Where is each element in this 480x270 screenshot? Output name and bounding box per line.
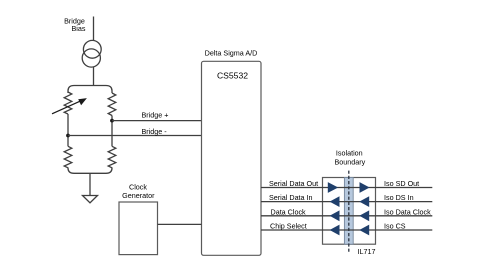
clock generator U2 box [119, 202, 158, 255]
label Isolation Boundary [335, 148, 366, 166]
buffer A7 (Chip Select, left) [330, 225, 340, 236]
wire right branch mid [111, 116, 113, 147]
wire Serial Data Out row [261, 187, 432, 189]
resistor R3 (bottom left) [64, 146, 72, 168]
resistor R1 (strain gauge, top left) [64, 92, 72, 114]
svg-text:Iso CS: Iso CS [384, 222, 406, 231]
svg-text:Boundary: Boundary [335, 157, 366, 166]
svg-text:Bridge -: Bridge - [142, 127, 168, 136]
buffer A3 (DS In, left) [330, 196, 340, 207]
wire Bridge - [68, 135, 202, 137]
svg-text:Serial Data In: Serial Data In [269, 193, 313, 202]
wire left branch mid [67, 114, 69, 146]
resistor R2 (top right) [108, 93, 116, 116]
wire Bridge + [112, 120, 202, 122]
svg-text:Bias: Bias [72, 24, 86, 33]
node Bridge Bias label [64, 16, 86, 33]
svg-text:Delta Sigma A/D: Delta Sigma A/D [205, 49, 258, 58]
buffer A5 (Data Clock, left) [330, 210, 340, 221]
wire from current source to bridge top [93, 67, 95, 86]
variable arrow on R1 [52, 98, 87, 114]
wire bridge bottom rail [68, 168, 112, 174]
node Bridge + junction [110, 119, 114, 123]
ground [83, 196, 98, 203]
isolation barrier band [344, 178, 353, 245]
svg-text:Chip Select: Chip Select [270, 222, 307, 231]
wire to ground [89, 173, 91, 195]
node Bridge - junction [66, 134, 70, 138]
svg-text:Bridge +: Bridge + [142, 110, 169, 119]
wire Serial Data In row [261, 201, 432, 203]
svg-text:Iso DS In: Iso DS In [384, 193, 414, 202]
buffer A2 (SD Out, right) [360, 182, 370, 193]
label Clock Generator [122, 182, 155, 200]
current source I1 [82, 40, 101, 67]
svg-text:Iso SD Out: Iso SD Out [384, 179, 419, 188]
wire from Bridge Bias to current source [93, 17, 95, 42]
buffer A6 (Data Clock, right) [359, 210, 369, 221]
wire Data Clock row [261, 215, 432, 217]
A/D converter U1 CS5532 box [202, 61, 262, 255]
svg-text:IL717: IL717 [358, 247, 376, 256]
svg-text:Isolation: Isolation [336, 148, 363, 157]
resistor R4 (bottom right) [108, 146, 116, 168]
svg-text:Data Clock: Data Clock [271, 207, 307, 216]
buffer A8 (Chip Select, right) [359, 225, 369, 236]
wire Chip Select row [261, 229, 432, 231]
isolation boundary dashed line [348, 171, 350, 253]
isolator U3 IL717 box [323, 178, 376, 245]
buffer A4 (DS In, right) [359, 196, 369, 207]
svg-text:Serial Data Out: Serial Data Out [269, 179, 318, 188]
wire clock generator to CS5532 [158, 223, 202, 225]
svg-text:Generator: Generator [122, 191, 155, 200]
buffer A1 (SD Out, left) [328, 182, 338, 193]
svg-text:CS5532: CS5532 [217, 70, 248, 80]
svg-text:Iso Data Clock: Iso Data Clock [384, 207, 431, 216]
wire bridge top rail [68, 86, 112, 94]
